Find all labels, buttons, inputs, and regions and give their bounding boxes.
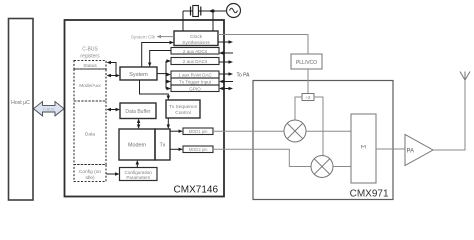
wire: PLL/VCO down to divider (307, 69, 309, 94)
Data Buffer block (120, 103, 156, 119)
Configuration Parameters block (120, 168, 158, 181)
svg-text:System: System (129, 72, 148, 78)
junction dot on clock rail (211, 9, 214, 12)
wire: crystal right leg down to clock synth (212, 11, 214, 31)
svg-text:Tx: Tx (160, 143, 166, 149)
wire: mixer Q to summer (333, 166, 351, 168)
svg-text:C-BUS: C-BUS (43, 107, 55, 111)
wire: mixer I to summer (306, 130, 351, 132)
Tx Sequence Control block (166, 100, 200, 118)
svg-text:Idle): Idle) (85, 175, 95, 181)
System block (120, 67, 157, 80)
wire: Tx Sequence Control to Tx (167, 118, 170, 129)
wire: MOD2 to mixer Q (213, 149, 311, 166)
wire: aux ADCs to System (148, 51, 171, 68)
svg-text:MOD2 pin: MOD2 pin (189, 147, 209, 152)
Host microcontroller box (9, 19, 34, 201)
wire: Mode/Aux register to System (107, 74, 121, 77)
wire: Clock Synthesizers to PLL/VCO (218, 35, 308, 55)
wire: crystal top rail (183, 10, 226, 12)
wire: Config register to Configuration Parameters (107, 172, 120, 175)
wire: Tx to MOD1 pin (170, 130, 183, 133)
wire: Tx to MOD2 pin (170, 148, 183, 151)
register: Mode/Aux (dashed) (74, 69, 106, 101)
wire: crystal left leg down to clock synth (182, 11, 184, 31)
wire: Data register to Data Buffer (bidirectional) (107, 108, 121, 111)
C-BUS bidirectional arrow (34, 102, 65, 116)
external clock source (227, 4, 241, 18)
svg-text:Config (on: Config (on (79, 169, 101, 175)
svg-text:PA: PA (407, 148, 415, 154)
aux DAC external output arrow (219, 60, 233, 63)
svg-text:Control: Control (175, 110, 190, 116)
svg-text:Synthesizers: Synthesizers (182, 40, 210, 46)
bus branch to 1 aux RAM DAC (166, 73, 171, 76)
CMX971 outer box (253, 81, 393, 200)
wire: summer to PA (376, 148, 405, 150)
wire: MOD1 to mixer I (213, 130, 284, 132)
CMX7146 outer box (65, 20, 225, 197)
bus vertical (165, 61, 167, 89)
svg-text:C-BUS: C-BUS (82, 47, 98, 53)
svg-text:Status: Status (83, 63, 97, 69)
mixer I (284, 120, 306, 142)
svg-text:Host µC: Host µC (11, 100, 30, 106)
Clock Synthesizers block (174, 31, 218, 46)
svg-text:Configuration: Configuration (125, 170, 153, 175)
Modem block (119, 129, 155, 160)
svg-text:1 aux RAM DAC: 1 aux RAM DAC (178, 73, 212, 78)
svg-text:To PA: To PA (237, 72, 251, 78)
svg-text:÷2: ÷2 (306, 95, 311, 100)
svg-text:2 aux DACs: 2 aux DACs (183, 59, 208, 64)
svg-text:Clock: Clock (190, 34, 203, 40)
antenna (460, 72, 470, 81)
wire: PA to antenna (433, 80, 465, 150)
RAM DAC output arrow To PA (219, 72, 250, 78)
svg-text:System Clk: System Clk (131, 34, 156, 40)
wire: Configuration Parameters to Modem (136, 160, 139, 168)
register: Config (on Idle) (dashed) (74, 165, 106, 182)
aux ADC external input arrow (219, 51, 233, 54)
arrowhead toward crystal (209, 9, 214, 13)
MOD2 pin block (183, 146, 213, 153)
register: Status (dashed) (74, 61, 106, 70)
wire: Data Buffer to Modem (bidirectional) (137, 119, 140, 130)
svg-text:2 aux ADCs: 2 aux ADCs (183, 49, 208, 54)
svg-text:Mode/Aux: Mode/Aux (79, 83, 101, 89)
Tx block (155, 129, 170, 160)
wire: System to Tx Sequence Control (140, 80, 171, 100)
svg-text:Modem: Modem (128, 143, 146, 149)
GPIO bidirectional arrow (219, 87, 233, 90)
C-BUS registers label (80, 47, 100, 60)
wire: System to peripheral bus (157, 73, 166, 75)
svg-text:Tx Sequence: Tx Sequence (169, 104, 198, 110)
register: Data (dashed) (74, 101, 106, 165)
Tx Trigger Input block (171, 78, 219, 85)
divider (quadrature splitter) (302, 94, 314, 101)
Tx Trigger external input arrow (219, 80, 233, 83)
1 aux RAM DAC block (171, 71, 219, 78)
System Clk output arrow (131, 34, 174, 40)
svg-text:Parameters: Parameters (126, 175, 150, 180)
wire: divider to mixer I (295, 97, 302, 120)
svg-text:CMX7146: CMX7146 (174, 185, 219, 196)
summer block (351, 114, 376, 183)
Clock Synthesizers short output arrow (218, 40, 233, 43)
MOD1 pin block (183, 128, 213, 135)
PA amplifier (405, 135, 433, 166)
svg-text:MOD1 pin: MOD1 pin (189, 129, 209, 134)
wire: divider to mixer Q (314, 97, 323, 156)
wire: Status register to System (107, 61, 117, 76)
crystal X1 (191, 6, 201, 17)
bus branch to GPIO (166, 87, 171, 90)
wire: System to Clock Synthesizers (142, 41, 174, 67)
PLL/VCO block (291, 54, 322, 69)
GPIO block (171, 85, 219, 92)
svg-text:registers: registers (80, 54, 100, 60)
2 aux DACs block (171, 58, 219, 65)
svg-text:Tx Trigger Input: Tx Trigger Input (179, 80, 212, 85)
2 aux ADCs block (171, 48, 219, 55)
svg-text:CMX971: CMX971 (350, 189, 389, 200)
svg-text:PLL/VCO: PLL/VCO (296, 60, 317, 66)
svg-text:Data: Data (85, 132, 95, 138)
svg-text:GPIO: GPIO (189, 86, 201, 91)
bus branch to Tx Trigger Input (166, 80, 171, 83)
svg-text:Σ: Σ (359, 145, 366, 149)
svg-text:Data Buffer: Data Buffer (125, 109, 151, 115)
mixer Q (311, 156, 333, 178)
bus branch to 2 aux DACs (166, 59, 171, 62)
